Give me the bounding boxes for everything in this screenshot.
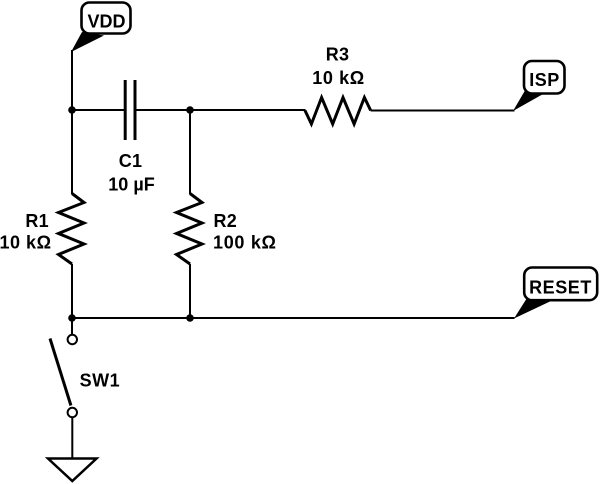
- node A junction (72,110): [68, 106, 76, 114]
- svg-text:10 kΩ: 10 kΩ: [312, 68, 364, 88]
- svg-text:100 kΩ: 100 kΩ: [213, 233, 277, 253]
- wire node A down to R1: [71, 110, 73, 194]
- net label RESET: [514, 268, 597, 319]
- node C junction (72,318): [68, 314, 76, 322]
- net label VDD: [71, 3, 131, 53]
- wire node A to C1 left plate: [72, 109, 124, 111]
- svg-text:RESET: RESET: [529, 278, 592, 298]
- resistor R1: [0, 194, 84, 265]
- wire node B to R3: [190, 109, 306, 111]
- svg-text:10 kΩ: 10 kΩ: [0, 233, 52, 253]
- svg-text:ISP: ISP: [529, 70, 560, 90]
- svg-text:SW1: SW1: [80, 371, 121, 391]
- wire R3 to ISP: [371, 110, 515, 112]
- wire R1 to node C: [71, 264, 73, 318]
- wire R2 to node D: [189, 264, 191, 318]
- svg-text:R1: R1: [25, 211, 49, 231]
- svg-text:10 µF: 10 µF: [108, 175, 154, 195]
- wire node C to switch: [71, 318, 73, 335]
- wire node B down to R2: [189, 110, 191, 194]
- ground: [48, 459, 97, 482]
- node D junction (190,318): [186, 314, 194, 322]
- svg-text:VDD: VDD: [87, 12, 125, 32]
- wire C1 right plate to node B: [136, 109, 190, 111]
- wire VDD to node A: [71, 50, 73, 110]
- resistor R2: [177, 194, 277, 265]
- node B junction (190,110): [186, 106, 194, 114]
- wire RESET net: [72, 317, 515, 319]
- svg-text:R3: R3: [326, 45, 350, 65]
- svg-text:R2: R2: [214, 211, 238, 231]
- net label ISP: [513, 61, 565, 111]
- capacitor C1: [108, 80, 154, 195]
- wire switch to ground: [71, 417, 73, 458]
- resistor R3: [305, 45, 371, 125]
- svg-text:C1: C1: [119, 151, 143, 171]
- switch SW1: [50, 335, 120, 417]
